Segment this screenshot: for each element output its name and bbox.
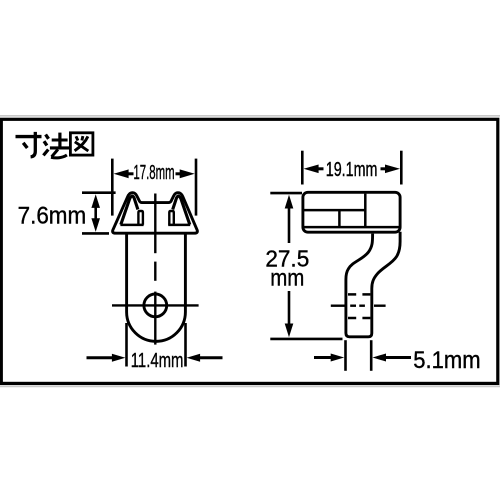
right base top edge bbox=[168, 224, 190, 227]
dimension 5.1mm bbox=[314, 340, 411, 371]
leg hidden hole edges (dashed) bbox=[348, 294, 370, 318]
body bottom semicircle bbox=[127, 312, 186, 341]
dimension 7.6mm bbox=[82, 193, 116, 234]
right wing inner wall and hook bbox=[173, 196, 190, 224]
right wing slot bbox=[169, 211, 174, 225]
dimension 11.4mm bbox=[87, 323, 223, 367]
dimension 19.1mm bbox=[302, 151, 401, 185]
border frame bbox=[1, 119, 498, 383]
leg outline bbox=[346, 232, 400, 337]
grey rule above frame bbox=[0, 115, 500, 117]
head inner small vertical bbox=[338, 210, 341, 227]
dimension 27.5mm bbox=[270, 193, 342, 339]
body left side bbox=[125, 234, 128, 312]
saddle outline bbox=[113, 193, 198, 234]
left base top edge bbox=[120, 224, 143, 227]
head rounded rect bbox=[303, 192, 400, 232]
head inner horizontal bbox=[304, 209, 365, 212]
hole horizontal crosshair bbox=[112, 304, 199, 306]
svg-text:11.4mm: 11.4mm bbox=[131, 349, 184, 372]
head bottom strip bbox=[304, 226, 399, 229]
svg-text:7.6mm: 7.6mm bbox=[18, 202, 87, 229]
svg-text:mm: mm bbox=[270, 264, 304, 291]
title char 法 bbox=[43, 133, 69, 158]
title char 図 bbox=[70, 133, 93, 155]
head divider vertical bbox=[364, 194, 367, 228]
leg hole centerline bbox=[331, 305, 386, 307]
body right side bbox=[184, 234, 187, 312]
vertical centerline bbox=[154, 194, 156, 345]
title char 寸 bbox=[16, 132, 42, 157]
mounting hole bbox=[144, 294, 167, 317]
grey rule below frame bbox=[0, 385, 500, 387]
left wing inner wall and hook bbox=[121, 196, 138, 224]
svg-text:5.1mm: 5.1mm bbox=[413, 346, 480, 373]
svg-text:19.1mm: 19.1mm bbox=[326, 158, 378, 181]
svg-text:17.8mm: 17.8mm bbox=[133, 162, 174, 184]
dimension 17.8mm bbox=[112, 159, 196, 216]
left wing slot bbox=[138, 211, 143, 225]
